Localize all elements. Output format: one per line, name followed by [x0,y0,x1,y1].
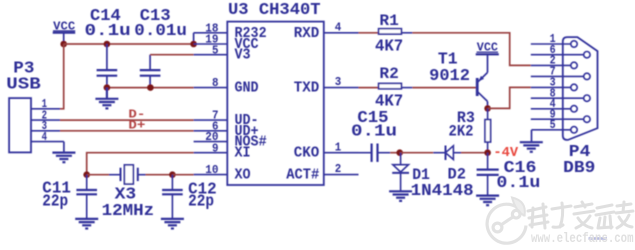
junction VCC stem [60,41,67,48]
svg-text:TXD: TXD [294,80,320,97]
svg-text:4: 4 [42,130,47,144]
svg-text:R2: R2 [379,65,398,83]
pin 2 ACT# [324,174,359,176]
pin 5 of P4 [532,129,571,131]
svg-text:0.1u: 0.1u [496,174,540,193]
wire C15 to node [390,152,400,154]
pin 3 TXD [324,87,359,89]
ground P3 pin4 [52,142,75,163]
ground under C12 [161,219,184,229]
pin 4 of P4 [531,108,571,110]
connector P4 DB9 outline [563,37,598,178]
pin 18 R232 [194,32,228,34]
power port VCC (left) [53,20,76,44]
junction crystal left [83,171,90,178]
capacitor C15 [351,109,397,162]
wire GND row [107,87,194,89]
wire D- net [60,119,194,121]
wire P3 pin1 to VCC rail [60,44,64,109]
diode D2 [433,146,466,184]
junction T1 collector [484,105,491,112]
pin 5 V3 [194,54,228,56]
resistor R1 [375,12,412,56]
wire XI net [87,153,194,175]
svg-text:8: 8 [212,76,219,90]
connector P3 USB [6,59,40,152]
svg-text:www.elecfans.com: www.elecfans.com [531,232,634,247]
wire D+ net [60,130,194,132]
junction -4V node [484,149,491,156]
pin 2 of P3 [31,119,60,121]
pin 9 of P4 [531,118,584,120]
ground under C11 [75,219,98,229]
wire crystal left [87,174,109,176]
pin 4 of P3 [31,141,64,143]
transistor T1 9012 [429,50,487,108]
svg-text:RXD: RXD [294,25,320,42]
wire node to D2 [400,152,434,154]
wire pin18 elbow [193,33,195,44]
pin 6 of P4 [531,54,584,56]
svg-text:5: 5 [212,43,219,57]
pin 7 UD- [194,119,228,121]
svg-text:USB: USB [6,76,40,95]
svg-text:1N4148: 1N4148 [411,182,474,201]
svg-text:2K2: 2K2 [449,122,474,140]
ground under C16 [476,196,499,206]
wire D2 to -4V node [461,152,488,154]
capacitor C13 [134,7,187,88]
junction C13 bottom [147,84,154,91]
svg-text:3: 3 [335,75,342,89]
watermark text 电子发烧友 [528,202,633,228]
watermark url www.elecfans.com [589,237,608,240]
wire VCC rail [64,43,194,45]
ground under C14 [95,88,118,109]
wire collector to DB9 pin3 [488,87,531,108]
svg-text:2: 2 [335,162,342,176]
pin 10 XO [194,174,228,176]
junction crystal right [169,171,176,178]
capacitor C14 [85,7,131,88]
capacitor C11 [42,175,97,219]
junction pin19 [190,41,197,48]
junction C14 bottom [104,84,111,91]
svg-text:0.1u: 0.1u [351,122,397,141]
pin 3 of P4 [531,86,571,88]
svg-text:U3 CH340T: U3 CH340T [228,1,321,20]
svg-text:4: 4 [335,20,342,34]
ground under D1 [389,191,412,201]
pin 9 XI [194,152,228,154]
wire crystal right [146,174,173,176]
pin 8 GND [194,87,228,89]
svg-text:XO: XO [235,167,251,184]
svg-text:10: 10 [205,163,218,177]
resistor R3 [449,108,491,152]
pin 2 of P4 [531,64,571,66]
svg-text:9: 9 [212,141,219,155]
svg-text:1: 1 [335,140,342,154]
capacitor C12 [162,175,217,219]
junction D1 node [396,149,403,156]
pin 19 VCC [194,43,228,45]
wire RXD to R1 [359,32,379,34]
junction C14 top [104,41,111,48]
svg-text:D2: D2 [448,166,467,184]
svg-text:R1: R1 [379,12,398,30]
crystal X3 12MHz [102,165,155,221]
wire XO net [172,174,193,176]
power port VCC (T1) [476,42,499,55]
pin 20 NOS# [194,141,228,143]
svg-text:4K7: 4K7 [375,38,403,57]
svg-text:22p: 22p [188,193,214,212]
svg-text:12MHz: 12MHz [102,202,155,221]
svg-text:CKO: CKO [294,145,320,162]
pin 8 of P4 [531,97,584,99]
svg-text:DB9: DB9 [563,159,595,178]
svg-text:D+: D+ [128,119,145,132]
pin 1 of P3 [31,108,60,110]
svg-text:5: 5 [550,118,556,132]
svg-text:V3: V3 [235,47,251,64]
ground DB9 pin5 [520,130,543,152]
diode D1 1N4148 [392,153,430,191]
wire V3 row [150,54,194,56]
wire R1 to DB9 pin2 [412,33,530,66]
svg-text:9012: 9012 [429,67,470,86]
wire R2 to T1 base [412,87,476,89]
svg-text:GND: GND [235,80,259,97]
pin 1 CKO [324,152,359,154]
resistor R2 [375,65,412,111]
watermark logo elecfans [487,198,526,244]
pin 3 of P3 [31,130,60,132]
svg-text:XI: XI [235,145,251,162]
svg-text:0.1u: 0.1u [85,22,131,41]
capacitor C16 [477,153,541,196]
pin 1 of P4 [531,43,571,45]
svg-text:0.01u: 0.01u [134,22,187,41]
wire TXD to R2 [359,87,379,89]
pin 4 RXD [324,32,359,34]
pin 7 of P4 [531,75,584,77]
pin 6 UD+ [194,130,228,132]
svg-text:ACT#: ACT# [286,167,319,184]
svg-text:22p: 22p [42,193,68,212]
